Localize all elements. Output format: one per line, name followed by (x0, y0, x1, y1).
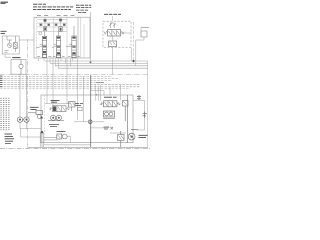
wire spool to check block (112, 36, 114, 74)
wire node down right (90, 127, 110, 129)
wire stub dark mid (96, 82, 104, 84)
relief valve right top (123, 95, 129, 143)
swing motor circles (48, 115, 64, 120)
wire return box right stub (121, 32, 131, 34)
gauge ticks (143, 112, 148, 119)
band cross verticals (96, 85, 121, 101)
right edge return wire (147, 61, 149, 147)
option port block (78, 107, 83, 110)
mid band wire 6 (0, 86, 140, 88)
junction node pump block top (95, 94, 97, 96)
label oil tank (12, 57, 20, 59)
supply dark vertical (90, 75, 92, 147)
pilot filter unit (57, 134, 67, 139)
wire header inside pump block (45, 95, 71, 104)
pilot filter unit label (57, 130, 66, 132)
control valve inner rail (36, 17, 38, 58)
ladder wire 1 (44, 136, 57, 138)
return check block (109, 41, 117, 47)
band to box verticals (47, 74, 84, 121)
boundary wire at valve right (90, 12, 92, 62)
note text control valve header (33, 4, 73, 9)
breather cylinder top line (141, 27, 149, 29)
wire filter to edge (67, 137, 70, 143)
riser top node (41, 131, 43, 133)
wire return box drops (130, 47, 132, 61)
cluster flecks section B (55, 19, 65, 30)
side port marks section A (39, 24, 50, 35)
note text above right valve section (76, 5, 91, 12)
spool valve S2 (52, 32, 61, 56)
control valve inner partition (77, 17, 79, 58)
return valve pilot arrows (109, 23, 116, 28)
label return pipe (104, 13, 121, 15)
gear pump P2 (24, 117, 29, 122)
check valve on box top (137, 95, 141, 100)
boundary dash vertical right (133, 22, 135, 63)
label below swing motor (49, 125, 59, 127)
pump block inner dash rail (44, 95, 46, 143)
travel spool right (100, 101, 121, 107)
pilot pump circle (7, 36, 12, 48)
tank suction drop wire (20, 74, 27, 117)
gauge line right (133, 100, 145, 130)
swing control spool (49, 106, 70, 112)
return valve spring right (121, 31, 125, 34)
check valve CV1 (44, 19, 47, 22)
mid band wire 2 (0, 78, 118, 80)
oil tank box (11, 60, 26, 75)
plugged port node (88, 120, 92, 124)
pilot relief valve (14, 36, 18, 52)
breather cylinder stem (136, 28, 144, 66)
mid band dash-dot wire (0, 74, 148, 76)
pump suction wires (20, 122, 41, 137)
mid band wire 5 (0, 84, 140, 86)
pilot unit text label (1, 31, 7, 33)
mid band wire 3 (0, 80, 112, 82)
inner rail wires vertical (54, 17, 67, 58)
wire pilot unit to control valve (19, 39, 34, 41)
triple riser left bottom (40, 132, 44, 147)
wire drops from valve ports (38, 59, 77, 75)
control valve box (34, 17, 90, 58)
title text top-left (1, 2, 9, 3)
port marks bottom edge (37, 55, 80, 57)
spec text column block (0, 98, 9, 130)
label right of motor (139, 135, 148, 137)
mid band wire 4 (0, 82, 104, 84)
port blocks bottom of control valve (42, 54, 76, 57)
side port marks section B (55, 24, 65, 26)
junction node valve right (90, 61, 92, 63)
left port valve on box edge (28, 107, 43, 118)
wire to brake valve (110, 132, 126, 134)
brake valve (118, 131, 125, 147)
port labels above control valve (37, 14, 75, 16)
wire elbow to pump block (91, 91, 104, 95)
pump block box (41, 95, 133, 143)
junction node right bus (132, 60, 134, 62)
bus wire A (45, 60, 148, 62)
label main pump (104, 96, 117, 98)
pilot pump unit box (2, 36, 19, 54)
ladder wire 2 (44, 139, 57, 141)
bus wire C (55, 65, 148, 67)
bus wire D (58, 67, 148, 69)
bottom boundary dash-dot (0, 148, 150, 150)
top rail wires section A (37, 20, 67, 32)
return pipe dashed box (103, 21, 131, 47)
small block mid bottom (104, 127, 114, 130)
label option port (75, 104, 83, 106)
bus wire B (50, 62, 148, 64)
wire junction drop (41, 119, 43, 132)
wire pump link (23, 119, 24, 121)
breather cylinder body (141, 31, 147, 37)
pilot unit bottom ticks (5, 51, 9, 53)
gear pump P1 (17, 117, 22, 122)
relief valve RV1 (43, 27, 46, 31)
return valve spring left (104, 31, 108, 34)
suction strainer (19, 60, 23, 75)
mid band wire 1 (0, 76, 112, 78)
spool valve S3 (66, 26, 76, 55)
bus left labels (0, 76, 2, 87)
travel motor bottom right (128, 133, 135, 140)
junction node left (40, 116, 42, 118)
cluster flecks section A (40, 20, 50, 31)
travel motor cluster (103, 111, 115, 119)
wire pilot unit down (5, 54, 11, 57)
machine boundary dash-dot left (27, 39, 29, 148)
check valve CV2 (59, 19, 62, 22)
return line drop to box (111, 16, 113, 21)
label swing unit (51, 100, 60, 102)
right section rail (81, 17, 84, 58)
legend text bottom left (5, 134, 15, 143)
relief valve RV2 (59, 26, 62, 31)
ladder wire 3 (44, 144, 91, 146)
label near travel motor (131, 129, 138, 131)
spool valve S1 (36, 32, 47, 55)
aux valve right of swing (69, 102, 76, 112)
mid band wire 7 (0, 88, 130, 90)
wire across node (74, 121, 104, 123)
bottom outer wire (28, 146, 148, 148)
return valve spool (108, 30, 121, 36)
